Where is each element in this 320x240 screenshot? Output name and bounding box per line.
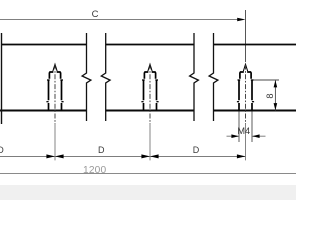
M4 dimension line right [252, 135, 266, 137]
stud S3 centerline [245, 65, 247, 125]
stud S2 [141, 72, 158, 111]
M4 arrow right [252, 134, 260, 138]
stud S2 centerline [149, 65, 151, 125]
stud S2 lower extension [149, 124, 151, 160]
svg-text:D: D [98, 145, 105, 155]
stud S1 centerline [54, 65, 56, 125]
rail bottom edge / mounting surface [0, 110, 296, 112]
break line 2 left [190, 33, 199, 121]
dimension 8 arrow down [274, 103, 278, 110]
dimension 8 line [274, 80, 276, 111]
stud S1 lower extension [54, 124, 56, 160]
stud S3 lower extension [245, 124, 247, 160]
stud S1 centerline arrow [53, 64, 57, 71]
dimension line C [0, 19, 238, 21]
break line 2 right [209, 33, 218, 121]
D arrows at stud 2 [141, 154, 150, 158]
break line 1 left [82, 33, 91, 121]
stud S1 [46, 72, 63, 111]
M4 extension line left [238, 112, 240, 143]
bottom gray band [0, 185, 296, 200]
stud S3 [237, 72, 254, 111]
D arrow at stud 3 [237, 154, 246, 158]
extension line at right stud center (top) [245, 10, 247, 62]
rail top edge [2, 44, 297, 46]
stud S3 centerline arrow [243, 64, 247, 71]
stud S2 centerline arrow [148, 64, 152, 71]
svg-text:M4: M4 [237, 126, 250, 136]
svg-text:C: C [92, 9, 99, 20]
dimension line D row [0, 156, 246, 158]
dimension line 1200 [0, 173, 296, 175]
M4 extension line right [251, 112, 253, 143]
M4 arrow left [231, 134, 239, 138]
svg-text:1200: 1200 [83, 165, 107, 176]
M4 dimension line left [227, 135, 240, 137]
D arrows at stud 1 [46, 154, 55, 158]
svg-text:D: D [193, 145, 200, 155]
dimension 8 arrow up [274, 80, 278, 87]
svg-text:8: 8 [265, 93, 275, 98]
dimension 8 extension line [253, 79, 279, 81]
break line 1 right [101, 33, 110, 121]
rail left end edge [1, 33, 3, 124]
svg-text:D: D [0, 145, 4, 155]
arrowhead C right [237, 18, 245, 22]
